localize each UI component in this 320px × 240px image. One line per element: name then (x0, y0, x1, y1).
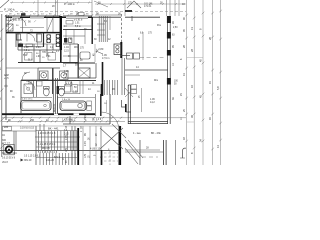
fixture: wc fixtures mid top (64, 38, 67, 43)
svg-text:o 90: o 90 (36, 56, 41, 58)
fixture: door arc large bottom-mid (101, 112, 119, 130)
wire: thin lines under wall (2, 118, 186, 122)
svg-text:Dim: Dim (154, 80, 158, 82)
svg-text:91 8: 91 8 (28, 60, 33, 62)
wall: x77.5 segments (77, 44, 79, 78)
wall: hall partitions y44-62 (18, 49, 60, 51)
svg-text:1,420 0841 1: 1,420 0841 1 (62, 120, 76, 122)
svg-text:BK/8 OL: BK/8 OL (54, 103, 56, 112)
fixture: section squiggle right (183, 148, 187, 158)
wire: dim row under bath (7, 120, 103, 123)
fixture: washer circle right (60, 71, 69, 80)
fixture: kitchen counter mid (80, 52, 90, 59)
svg-text:300: 300 (2, 139, 7, 142)
wall: bath side walls (34, 81, 37, 98)
svg-text:e 1,26: e 1,26 (66, 83, 73, 85)
svg-text:175: 175 (65, 147, 68, 152)
wall: x102.5 dark spine (102, 62, 104, 96)
wall: wall x121 thick lower (120, 42, 122, 58)
wire: top dim verticals (37, 0, 39, 16)
wire: top-right diagonals (127, 1, 141, 8)
stair: diagonal flight marks (100, 124, 126, 149)
svg-text:3,5 1,15 2,0 6,1: 3,5 1,15 2,0 6,1 (24, 156, 41, 158)
svg-text:51V 9: 51V 9 (54, 157, 61, 159)
fixture: furniture rects hall cells (25, 53, 33, 61)
fixture: toilet left (43, 88, 49, 96)
wire: dashed pipe y57.5 (140, 57, 166, 59)
wire: right dim verticals (186, 0, 188, 165)
fixture: toilet right (59, 88, 65, 96)
fixture: sink unit right (114, 44, 121, 55)
svg-text:1,4 8: 1,4 8 (96, 119, 102, 121)
svg-text:P. 100 k: P. 100 k (4, 8, 15, 12)
duct: vertical shaft band lines (99, 16, 107, 42)
fixture: stacked boxes right of tub (87, 101, 92, 105)
fixture: door arc second top-left (18, 18, 26, 26)
wire: top-left diagonal leader (0, 0, 9, 8)
svg-text:4 | B - 12: 4 | B - 12 (90, 148, 101, 151)
svg-text:0,0,15 51V 8: 0,0,15 51V 8 (2, 158, 16, 160)
wall: y150.5 long (0, 150, 120, 152)
fixture: shaft X box (78, 68, 90, 78)
svg-text:BK - 441: BK - 441 (48, 127, 59, 131)
svg-text:5,5 m: 5,5 m (75, 26, 81, 28)
fixture: twin boxes lower-left of right block (127, 53, 133, 59)
wire: shaft band rungs (97, 24, 105, 35)
stair: mid treads x105-120 y80-95 (105, 80, 118, 95)
svg-text:3no 8 1,6 9/19: 3no 8 1,6 9/19 (2, 153, 17, 155)
svg-text:14,2: 14,2 (150, 101, 155, 104)
wire: corner diagonal x125 y88 (125, 88, 133, 97)
fixture: bathtub right (60, 101, 86, 111)
fixture: washer circle left (40, 71, 49, 80)
svg-text:1.05: 1.05 (73, 92, 78, 94)
svg-text:A0M: A0M (4, 74, 9, 77)
wall: thick dark stair wall x119.5 (119, 126, 122, 165)
svg-text:4,5 m: 4,5 m (24, 50, 30, 52)
svg-text:2,50: 2,50 (173, 27, 178, 29)
svg-text:1,5 0 1 8 o: 1,5 0 1 8 o (22, 99, 33, 101)
wire: +2,80 arrow (96, 51, 103, 54)
fixture: small rooms x63-80 y84-94 (65, 85, 71, 93)
svg-text:98 o 15: 98 o 15 (42, 148, 50, 150)
wire: x132 stub (131, 16, 133, 21)
wall: dark stub x125 y104 (125, 104, 127, 112)
svg-text:1.01: 1.01 (75, 23, 80, 25)
wall: x110 lower (109, 94, 111, 124)
svg-text:2 1 8: 2 1 8 (5, 143, 11, 145)
wire: plus mark left (4, 84, 8, 88)
fixture: door arc to y80 wall (22, 72, 30, 80)
svg-text:1.02: 1.02 (24, 47, 29, 49)
wire: window lines top (12, 16, 44, 18)
svg-text:5,1 o,18 9 15 0,1: 5,1 o,18 9 15 0,1 (38, 144, 56, 146)
wire: ticks along y15.5 (5, 14, 93, 16)
wall: left outer dimension line (1, 14, 3, 157)
svg-text:175: 175 (84, 153, 87, 158)
svg-text:3,19 9,0 0,15: 3,19 9,0 0,15 (20, 127, 35, 130)
wall: y124 line / lower partitions (63, 123, 110, 125)
svg-text:17,9 m: 17,9 m (102, 57, 109, 60)
fixture: bathtub left (21, 101, 52, 111)
fixture: kitchen burner block A (47, 35, 51, 39)
svg-text:1,91: 1,91 (46, 56, 51, 58)
wall: room bottom y70 right block (125, 69, 168, 71)
svg-text:220: 220 (4, 126, 9, 129)
wire: x143 dim (142, 32, 144, 60)
stair: lower stair treads lower run (40, 153, 75, 165)
fixture: sinks above toilets (37, 81, 43, 86)
wire: top dim line y2.5 with ticks (10, 2, 92, 4)
fixture: door arc mid (26, 81, 35, 90)
svg-text:171 01: 171 01 (144, 5, 152, 8)
wall: bath right wall (43, 33, 45, 47)
svg-text:5,11 91 8: 5,11 91 8 (13, 20, 23, 22)
wall: partitions mid 80-104 (21, 79, 60, 81)
svg-text:0,15: 0,15 (64, 134, 69, 136)
svg-text:BK - 43k: BK - 43k (151, 132, 161, 135)
wall: top outer wall (6, 16, 92, 18)
wall: x160-163 double bottom (163, 140, 166, 165)
fixture: hatched shaft top-left (6, 24, 13, 31)
wire: dashed section line across top (0, 11, 186, 13)
wire: x95 dim line (94, 44, 96, 62)
svg-text:o51 8: o51 8 (2, 162, 8, 164)
svg-text:WC: WC (74, 47, 78, 49)
wall: y63 (63, 62, 95, 64)
svg-text:5,8: 5,8 (216, 86, 220, 90)
wire: connector ticks on right dim lines (187, 58, 203, 123)
wall: inner left wall (5, 15, 7, 120)
svg-text:2.45: 2.45 (84, 115, 87, 120)
fixture: small bath top-left cluster (16, 33, 22, 47)
svg-text:1.05: 1.05 (64, 70, 69, 73)
wire: stair hall horizontals (36, 142, 78, 158)
wall: y137 (35, 136, 80, 138)
svg-text:o 1,91 8: o 1,91 8 (74, 19, 83, 21)
svg-text:+ 2,80: + 2,80 (96, 47, 104, 51)
svg-text:4 - 1ea: 4 - 1ea (133, 132, 141, 135)
wall: bathroom top wall y80.5 (21, 80, 96, 82)
wire: x175 bottom (175, 140, 177, 165)
wire: top dim lines (5, 14, 121, 17)
stair: lower stair treads upper run (39, 131, 77, 151)
svg-text:1.03: 1.03 (36, 47, 41, 49)
svg-text:+0,5: +0,5 (4, 78, 9, 80)
wall: party wall lines (53, 78, 57, 114)
wire: small marks on dashed line (21, 13, 26, 16)
wall: y114 thick bottom of bath (2, 113, 95, 115)
svg-text:256: 256 (30, 119, 35, 122)
svg-text:1 8 o 15: 1 8 o 15 (62, 99, 71, 101)
wall: middle unit partitions (69, 116, 71, 124)
fixture: shower box left bath (24, 84, 33, 94)
wall: horizontal wall y32 (6, 32, 60, 34)
wall: wall x121 dashed upper (121, 14, 123, 42)
fixture: closet x47-53 (47, 18, 53, 33)
fixture: door leaf + arc entry (6, 18, 10, 20)
svg-text:2.45: 2.45 (65, 135, 68, 140)
wall: double wall y121-123 right-mid room (128, 120, 168, 122)
svg-text:13A-20: 13A-20 (46, 159, 55, 162)
svg-text:5,1 8,18 3,15 0,1 8: 5,1 8,18 3,15 0,1 8 (38, 152, 58, 154)
fixture: survey target circle (4, 144, 15, 155)
wall: right building wall double (167, 16, 169, 124)
svg-text:ISN 20: ISN 20 (24, 159, 32, 162)
wire: vestibule line y23 (20, 27, 44, 29)
wall: central spine wall (60, 16, 62, 50)
wire: right dim ticks (185, 10, 222, 151)
svg-text:200: 200 (28, 82, 33, 85)
svg-text:2.45: 2.45 (84, 141, 87, 146)
svg-text:12,5: 12,5 (64, 49, 69, 52)
svg-text:1,28 9,0,15 3,1 8: 1,28 9,0,15 3,1 8 (38, 133, 56, 135)
wall: x95.5 and x100.8 (95, 94, 97, 116)
